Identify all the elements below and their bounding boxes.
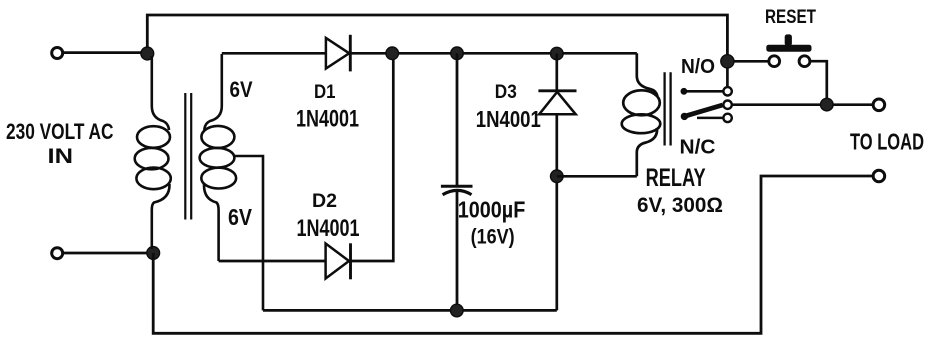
- relay K1 core: [665, 72, 671, 145]
- wire junction to reset left terminal: [734, 60, 769, 63]
- svg-text:6V, 300Ω: 6V, 300Ω: [637, 193, 723, 217]
- relay K1 coil: [622, 53, 661, 176]
- terminal AC input top: [52, 48, 63, 59]
- transformer T1 core: [185, 93, 191, 220]
- junction D1/D2 cathodes: [386, 47, 399, 60]
- svg-text:(16V): (16V): [471, 226, 515, 249]
- svg-text:1N4001: 1N4001: [296, 106, 359, 133]
- wire ground bus: [263, 309, 557, 312]
- svg-text:1000µF: 1000µF: [458, 196, 526, 222]
- junction capacitor top: [451, 47, 464, 60]
- push button RESET left terminal: [769, 56, 780, 67]
- junction D3 bottom / relay coil node: [551, 170, 564, 183]
- wire D2 anode: [219, 260, 326, 263]
- wire reset right terminal down to load node: [810, 61, 827, 100]
- capacitor C1 top lead: [456, 53, 459, 185]
- svg-text:N/C: N/C: [680, 137, 716, 159]
- capacitor C1 bottom lead: [456, 192, 459, 311]
- wire load return / bottom bus: [153, 176, 873, 333]
- wire AC input bottom: [63, 252, 153, 255]
- diode D2: [326, 243, 351, 279]
- junction reset branch: [721, 55, 734, 68]
- junction D3 top (rail): [551, 47, 564, 60]
- svg-text:IN: IN: [48, 144, 74, 168]
- diode D3 cathode lead: [555, 54, 558, 90]
- svg-text:1N4001: 1N4001: [476, 106, 541, 132]
- relay armature (common pole): [681, 101, 732, 120]
- svg-text:RESET: RESET: [765, 7, 816, 28]
- wire relay coil bottom: [557, 175, 637, 178]
- svg-text:6V: 6V: [228, 204, 252, 230]
- diode D3 anode lead: [555, 114, 558, 176]
- svg-text:RELAY: RELAY: [646, 164, 706, 192]
- terminal TO LOAD top: [873, 99, 885, 111]
- svg-text:D2: D2: [312, 190, 337, 212]
- wire common pole to load terminal: [732, 103, 873, 106]
- wire D2 cathode up to rail: [351, 53, 394, 261]
- svg-text:N/O: N/O: [681, 56, 715, 78]
- terminal AC input bottom: [52, 248, 63, 259]
- wire top rail from AC live junction to reset branch: [147, 15, 727, 58]
- wire AC input top: [63, 51, 148, 54]
- push button RESET right terminal: [799, 56, 810, 67]
- diode D3: [538, 91, 576, 115]
- push button RESET actuator: [766, 34, 811, 51]
- svg-text:1N4001: 1N4001: [297, 215, 360, 242]
- junction load node: [821, 98, 834, 111]
- wire D1 anode rail: [222, 52, 326, 55]
- relay contact N/O: [681, 87, 732, 95]
- svg-text:230 VOLT AC: 230 VOLT AC: [6, 119, 114, 144]
- wire N/O feed from top rail: [726, 61, 729, 87]
- svg-text:TO LOAD: TO LOAD: [850, 129, 924, 155]
- svg-text:D1: D1: [314, 81, 336, 103]
- wire center tap to ground bus: [234, 156, 264, 310]
- transformer T1 secondary winding: [200, 54, 237, 261]
- diode D1: [326, 35, 350, 72]
- wire ground bus riser to D3 node: [555, 176, 558, 310]
- relay contact N/C: [697, 114, 732, 122]
- junction capacitor bottom: [451, 304, 464, 317]
- junction bottom-left (neutral node): [147, 247, 160, 260]
- svg-text:6V: 6V: [230, 77, 253, 102]
- junction top-left (live node): [141, 47, 154, 60]
- wire rectifier output rail: [350, 52, 637, 55]
- svg-text:D3: D3: [495, 81, 517, 103]
- terminal TO LOAD bottom: [873, 170, 885, 182]
- transformer T1 primary winding: [135, 56, 171, 249]
- capacitor C1 plates: [441, 186, 473, 195]
